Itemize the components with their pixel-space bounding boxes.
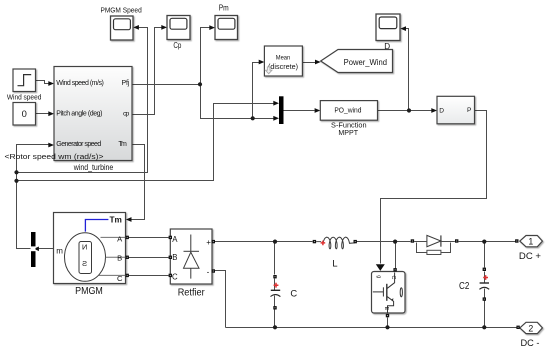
svg-text:Pfj: Pfj xyxy=(122,80,130,87)
svg-text:(discrete): (discrete) xyxy=(268,62,298,71)
svg-text:S: S xyxy=(82,259,87,268)
svg-text:Tm: Tm xyxy=(118,141,127,148)
svg-text:Wind speed (m/s): Wind speed (m/s) xyxy=(56,80,104,87)
svg-text:C: C xyxy=(390,276,396,280)
svg-text:1: 1 xyxy=(528,237,533,247)
svg-text:0: 0 xyxy=(22,108,27,119)
svg-text:DC -: DC - xyxy=(521,338,540,349)
svg-text:P: P xyxy=(467,107,472,114)
svg-text:m: m xyxy=(56,247,63,256)
svg-text:wind_turbine: wind_turbine xyxy=(73,162,114,172)
svg-text:C2: C2 xyxy=(459,281,469,292)
svg-text:C: C xyxy=(290,288,297,299)
svg-text:-: - xyxy=(207,267,210,276)
svg-text:PMGM: PMGM xyxy=(75,286,103,297)
svg-text:L: L xyxy=(332,258,338,269)
svg-text:Cp: Cp xyxy=(173,41,181,50)
svg-text:E: E xyxy=(383,307,389,311)
svg-text:cp: cp xyxy=(123,111,130,118)
svg-text:PMGM Speed: PMGM Speed xyxy=(100,5,141,14)
svg-text:g: g xyxy=(376,275,382,278)
svg-text:B: B xyxy=(117,254,122,263)
svg-text:C: C xyxy=(172,272,178,281)
svg-text:MPPT: MPPT xyxy=(338,128,358,137)
svg-text:Pitch angle (deg): Pitch angle (deg) xyxy=(56,111,102,118)
svg-text:N: N xyxy=(82,243,87,252)
svg-text:2: 2 xyxy=(528,323,533,333)
svg-text:B: B xyxy=(172,253,177,262)
svg-text:Pm: Pm xyxy=(219,4,229,13)
svg-text:PO_wind: PO_wind xyxy=(334,106,361,115)
svg-text:Wind speed: Wind speed xyxy=(7,93,42,102)
svg-text:+: + xyxy=(206,238,211,247)
svg-text:Mean: Mean xyxy=(276,55,291,62)
svg-text:Power_Wind: Power_Wind xyxy=(344,57,387,67)
svg-text:<Rotor speed wm (rad/s)>: <Rotor speed wm (rad/s)> xyxy=(5,154,104,161)
svg-text:C: C xyxy=(117,274,123,283)
svg-text:Generator speed: Generator speed xyxy=(56,141,101,148)
svg-text:A: A xyxy=(172,235,178,244)
svg-text:Retfier: Retfier xyxy=(178,287,206,298)
svg-text:Tm: Tm xyxy=(110,214,123,224)
svg-text:DC +: DC + xyxy=(519,251,542,262)
svg-text:D: D xyxy=(439,107,444,114)
